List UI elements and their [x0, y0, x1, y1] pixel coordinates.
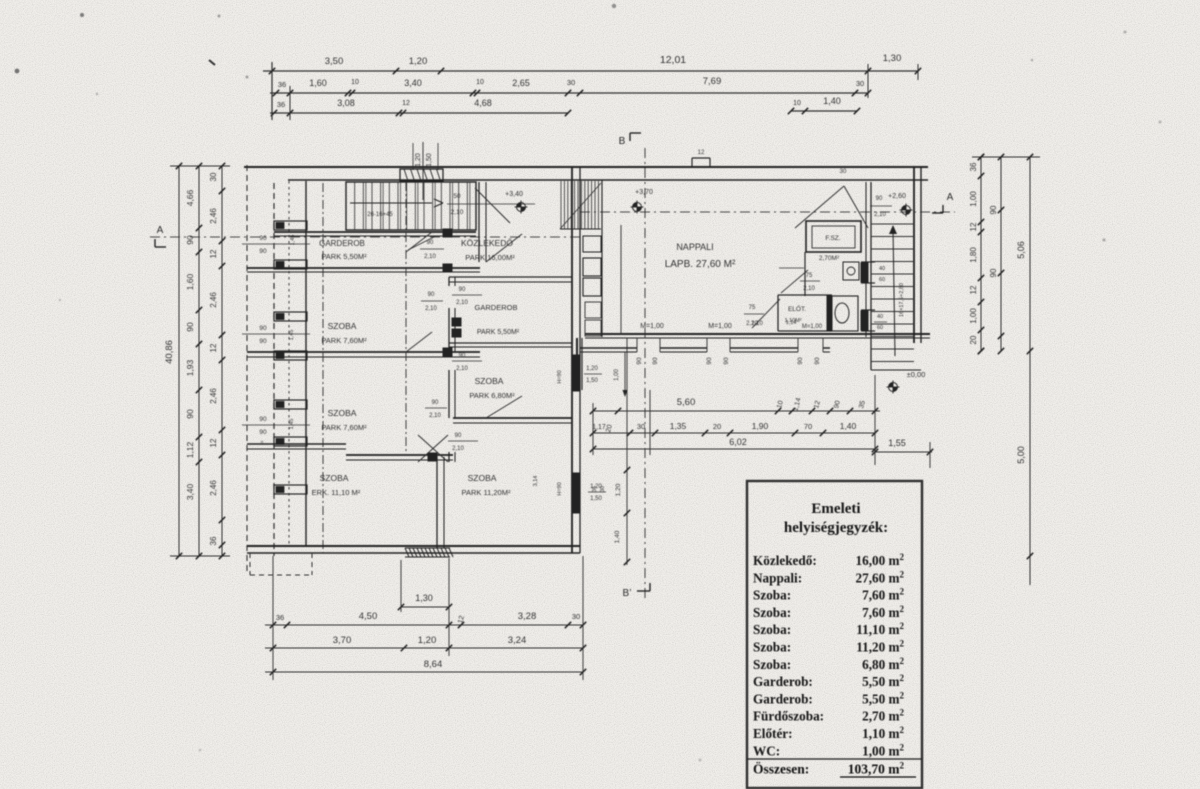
svg-text:2,10: 2,10 [874, 212, 886, 218]
svg-text:36: 36 [209, 536, 218, 545]
svg-text:12,01: 12,01 [660, 54, 686, 66]
svg-text:2,70M²: 2,70M² [819, 255, 840, 262]
svg-text:WC:: WC: [753, 743, 780, 758]
svg-text:75: 75 [806, 273, 813, 279]
svg-text:2,46: 2,46 [209, 480, 218, 496]
svg-text:7,60 m2: 7,60 m2 [862, 587, 904, 603]
svg-text:90: 90 [185, 322, 195, 332]
svg-text:36: 36 [278, 80, 286, 89]
svg-text:5,60: 5,60 [677, 397, 696, 408]
svg-text:90: 90 [259, 429, 267, 436]
svg-text:2,46: 2,46 [209, 208, 218, 224]
svg-text:Szoba:: Szoba: [753, 657, 791, 672]
svg-text:5,50 m2: 5,50 m2 [862, 690, 904, 706]
svg-text:40: 40 [879, 266, 885, 272]
svg-text:12: 12 [698, 150, 705, 156]
svg-text:PARK 7,60M²: PARK 7,60M² [321, 336, 367, 345]
svg-text:90: 90 [427, 240, 434, 246]
svg-text:PARK 11,20M²: PARK 11,20M² [462, 488, 511, 497]
svg-text:30: 30 [856, 79, 864, 88]
svg-text:50: 50 [453, 193, 461, 200]
svg-text:SZOBA: SZOBA [328, 321, 357, 331]
svg-text:10: 10 [476, 79, 484, 86]
svg-text:1,45: 1,45 [289, 419, 295, 430]
svg-text:SZOBA: SZOBA [475, 376, 504, 386]
svg-text:1,20: 1,20 [590, 484, 602, 490]
svg-text:F.SZ.: F.SZ. [825, 235, 840, 242]
svg-text:PARK 5,50M²: PARK 5,50M² [477, 329, 520, 336]
svg-text:Nappali:: Nappali: [753, 570, 802, 585]
svg-text:12: 12 [209, 249, 218, 258]
svg-text:1,30: 1,30 [883, 53, 902, 64]
svg-text:90: 90 [989, 205, 998, 214]
svg-text:26·16+45: 26·16+45 [367, 212, 393, 218]
svg-text:90: 90 [989, 268, 998, 277]
svg-text:Garderob:: Garderob: [753, 674, 813, 689]
svg-text:M=1,00: M=1,00 [802, 324, 823, 330]
svg-text:90: 90 [459, 287, 466, 293]
svg-text:1,40: 1,40 [614, 530, 621, 543]
svg-text:H=90: H=90 [557, 370, 563, 383]
svg-text:30: 30 [209, 172, 218, 181]
svg-text:Szoba:: Szoba: [753, 588, 791, 603]
svg-text:NAPPALI: NAPPALI [676, 242, 713, 252]
svg-text:1,00: 1,00 [969, 308, 978, 324]
svg-text:70: 70 [804, 422, 812, 431]
svg-text:1,17: 1,17 [592, 424, 606, 431]
svg-text:ELŐT.: ELŐT. [788, 304, 806, 313]
svg-text:1,00: 1,00 [614, 369, 620, 381]
svg-text:3,40: 3,40 [185, 483, 195, 500]
svg-text:1,10 m2: 1,10 m2 [862, 725, 904, 741]
svg-text:11,20 m2: 11,20 m2 [856, 639, 904, 655]
svg-text:2,65: 2,65 [512, 78, 530, 88]
svg-text:10: 10 [793, 100, 801, 107]
svg-text:1,20: 1,20 [615, 483, 622, 496]
svg-text:PARK 5,50M²: PARK 5,50M² [321, 252, 367, 261]
svg-text:30: 30 [637, 422, 645, 431]
svg-text:+3,40: +3,40 [505, 191, 523, 198]
svg-text:30: 30 [840, 169, 847, 175]
svg-text:helyiségjegyzék:: helyiségjegyzék: [784, 520, 888, 536]
svg-text:A: A [157, 225, 164, 236]
svg-text:90: 90 [259, 248, 267, 255]
svg-text:Szoba:: Szoba: [753, 605, 791, 620]
svg-text:SZOBA: SZOBA [328, 408, 357, 418]
svg-text:1,45: 1,45 [289, 330, 295, 341]
svg-text:1,35: 1,35 [670, 421, 687, 431]
svg-text:1,12: 1,12 [185, 441, 195, 458]
svg-text:90: 90 [876, 196, 883, 202]
svg-text:2,10: 2,10 [424, 254, 436, 260]
svg-text:20: 20 [713, 422, 721, 431]
svg-text:60: 60 [877, 325, 883, 331]
svg-text:12: 12 [969, 285, 978, 294]
svg-text:11,10 m2: 11,10 m2 [856, 621, 904, 637]
svg-text:5,00: 5,00 [1016, 446, 1026, 464]
svg-text:2,10: 2,10 [456, 300, 468, 306]
svg-text:6,02: 6,02 [729, 437, 747, 447]
svg-text:1,00 m2: 1,00 m2 [862, 742, 904, 758]
svg-text:+3,70: +3,70 [635, 189, 653, 196]
svg-text:2,46: 2,46 [209, 292, 218, 308]
svg-text:3,50: 3,50 [325, 56, 344, 67]
svg-text:7,69: 7,69 [703, 76, 722, 87]
svg-text:1,93: 1,93 [185, 359, 195, 376]
svg-text:Előtér:: Előtér: [753, 726, 793, 741]
svg-text:60: 60 [879, 277, 885, 283]
svg-text:4,68: 4,68 [474, 98, 492, 108]
svg-text:2,10: 2,10 [425, 306, 437, 312]
svg-text:90: 90 [652, 357, 659, 365]
svg-text:36: 36 [969, 162, 978, 171]
svg-text:8,64: 8,64 [424, 659, 443, 670]
svg-text:2,10: 2,10 [429, 413, 441, 419]
svg-text:+2,60: +2,60 [888, 193, 906, 200]
svg-text:1,20: 1,20 [409, 56, 428, 67]
svg-text:1,14: 1,14 [786, 320, 797, 326]
svg-text:GARDEROB: GARDEROB [319, 239, 365, 248]
svg-text:36: 36 [276, 613, 284, 622]
svg-text:20: 20 [969, 335, 978, 344]
svg-text:40,86: 40,86 [164, 340, 175, 364]
svg-text:90: 90 [259, 416, 267, 423]
svg-text:90: 90 [459, 353, 466, 359]
svg-text:90: 90 [797, 357, 804, 365]
svg-text:40: 40 [877, 314, 883, 320]
svg-text:1,20: 1,20 [586, 366, 598, 372]
svg-text:3,08: 3,08 [337, 98, 355, 108]
svg-text:PARK 16,00M²: PARK 16,00M² [465, 253, 515, 262]
svg-text:1,80: 1,80 [969, 247, 978, 263]
svg-text:B’: B’ [623, 588, 632, 599]
svg-text:12: 12 [402, 100, 410, 107]
svg-text:90: 90 [259, 338, 267, 345]
svg-text:90: 90 [259, 325, 267, 332]
svg-text:1,50: 1,50 [586, 378, 598, 384]
svg-text:2,10: 2,10 [452, 446, 464, 452]
svg-text:90: 90 [814, 357, 821, 365]
svg-text:6,80 m2: 6,80 m2 [862, 656, 904, 672]
svg-text:2,10: 2,10 [456, 366, 468, 372]
svg-text:90: 90 [428, 292, 435, 298]
svg-text:M=1,00: M=1,00 [640, 323, 664, 330]
svg-text:Emeleti: Emeleti [811, 501, 860, 517]
svg-text:27,60 m2: 27,60 m2 [856, 569, 905, 585]
svg-text:1,20: 1,20 [418, 635, 437, 646]
svg-text:Közlekedő:: Közlekedő: [753, 553, 817, 568]
svg-text:3,70: 3,70 [333, 635, 352, 646]
svg-text:4,50: 4,50 [359, 611, 378, 622]
svg-text:1,40: 1,40 [823, 96, 841, 106]
svg-text:12: 12 [209, 438, 218, 447]
svg-text:A: A [947, 192, 954, 203]
svg-text:75: 75 [749, 305, 756, 311]
svg-text:2,10: 2,10 [803, 286, 815, 292]
svg-text:1,20: 1,20 [415, 153, 422, 167]
svg-text:1,30: 1,30 [415, 593, 433, 603]
svg-text:Összesen:: Összesen: [753, 762, 809, 777]
svg-text:90: 90 [185, 409, 195, 419]
svg-text:SZOBA: SZOBA [320, 473, 349, 483]
svg-text:GARDEROB: GARDEROB [475, 303, 518, 312]
svg-text:12: 12 [209, 343, 218, 352]
svg-text:±0,00: ±0,00 [907, 370, 926, 379]
svg-text:2,70 m2: 2,70 m2 [862, 708, 904, 724]
svg-text:36: 36 [277, 100, 285, 109]
svg-text:2,46: 2,46 [209, 388, 218, 404]
svg-text:2,10: 2,10 [451, 209, 464, 216]
svg-text:B: B [619, 136, 626, 147]
svg-text:Szoba:: Szoba: [753, 640, 791, 655]
svg-text:M=1,00: M=1,00 [708, 323, 732, 330]
svg-text:90: 90 [706, 357, 713, 365]
svg-text:12: 12 [969, 222, 978, 231]
svg-text:1,40: 1,40 [840, 421, 857, 431]
svg-text:1,60: 1,60 [309, 78, 327, 88]
svg-text:PARK 7,60M²: PARK 7,60M² [321, 423, 367, 432]
svg-text:90: 90 [723, 357, 730, 365]
svg-text:90: 90 [185, 235, 195, 245]
svg-text:1,50: 1,50 [426, 153, 433, 167]
svg-text:PARK 6,80M²: PARK 6,80M² [469, 391, 515, 400]
svg-text:103,70 m2: 103,70 m2 [848, 761, 905, 777]
svg-text:3,24: 3,24 [508, 635, 527, 646]
svg-text:Fürdőszoba:: Fürdőszoba: [753, 709, 824, 724]
svg-text:Garderob:: Garderob: [753, 691, 813, 706]
svg-text:ERK. 11,10 M²: ERK. 11,10 M² [312, 488, 361, 497]
svg-text:KÖZLEKEDŐ: KÖZLEKEDŐ [461, 238, 513, 248]
svg-text:16,00 m2: 16,00 m2 [856, 552, 905, 568]
svg-text:SZOBA: SZOBA [468, 473, 497, 483]
svg-text:5,06: 5,06 [1016, 241, 1026, 259]
svg-text:Szoba:: Szoba: [753, 622, 791, 637]
svg-text:1,60: 1,60 [185, 273, 195, 290]
svg-text:3,28: 3,28 [518, 611, 537, 622]
svg-text:3,14: 3,14 [533, 476, 539, 487]
svg-text:16×17,5+2,80: 16×17,5+2,80 [899, 283, 905, 317]
svg-text:1,55: 1,55 [888, 438, 906, 448]
svg-text:90: 90 [636, 357, 643, 365]
svg-text:1,00: 1,00 [969, 191, 978, 207]
svg-text:1,50: 1,50 [590, 496, 602, 502]
svg-text:3,40: 3,40 [404, 78, 422, 88]
svg-text:30: 30 [567, 78, 575, 87]
svg-text:90: 90 [259, 235, 267, 242]
svg-text:90: 90 [455, 433, 462, 439]
svg-text:4,66: 4,66 [185, 189, 195, 206]
svg-text:LAPB. 27,60 M²: LAPB. 27,60 M² [665, 259, 736, 270]
svg-text:2,10: 2,10 [751, 321, 763, 327]
svg-text:30: 30 [572, 612, 580, 621]
svg-text:5,50 m2: 5,50 m2 [862, 673, 904, 689]
svg-text:90: 90 [432, 400, 439, 406]
svg-text:1,90: 1,90 [752, 421, 769, 431]
svg-text:H=90: H=90 [557, 482, 563, 495]
svg-text:10: 10 [351, 79, 359, 86]
svg-text:7,60 m2: 7,60 m2 [862, 604, 904, 620]
